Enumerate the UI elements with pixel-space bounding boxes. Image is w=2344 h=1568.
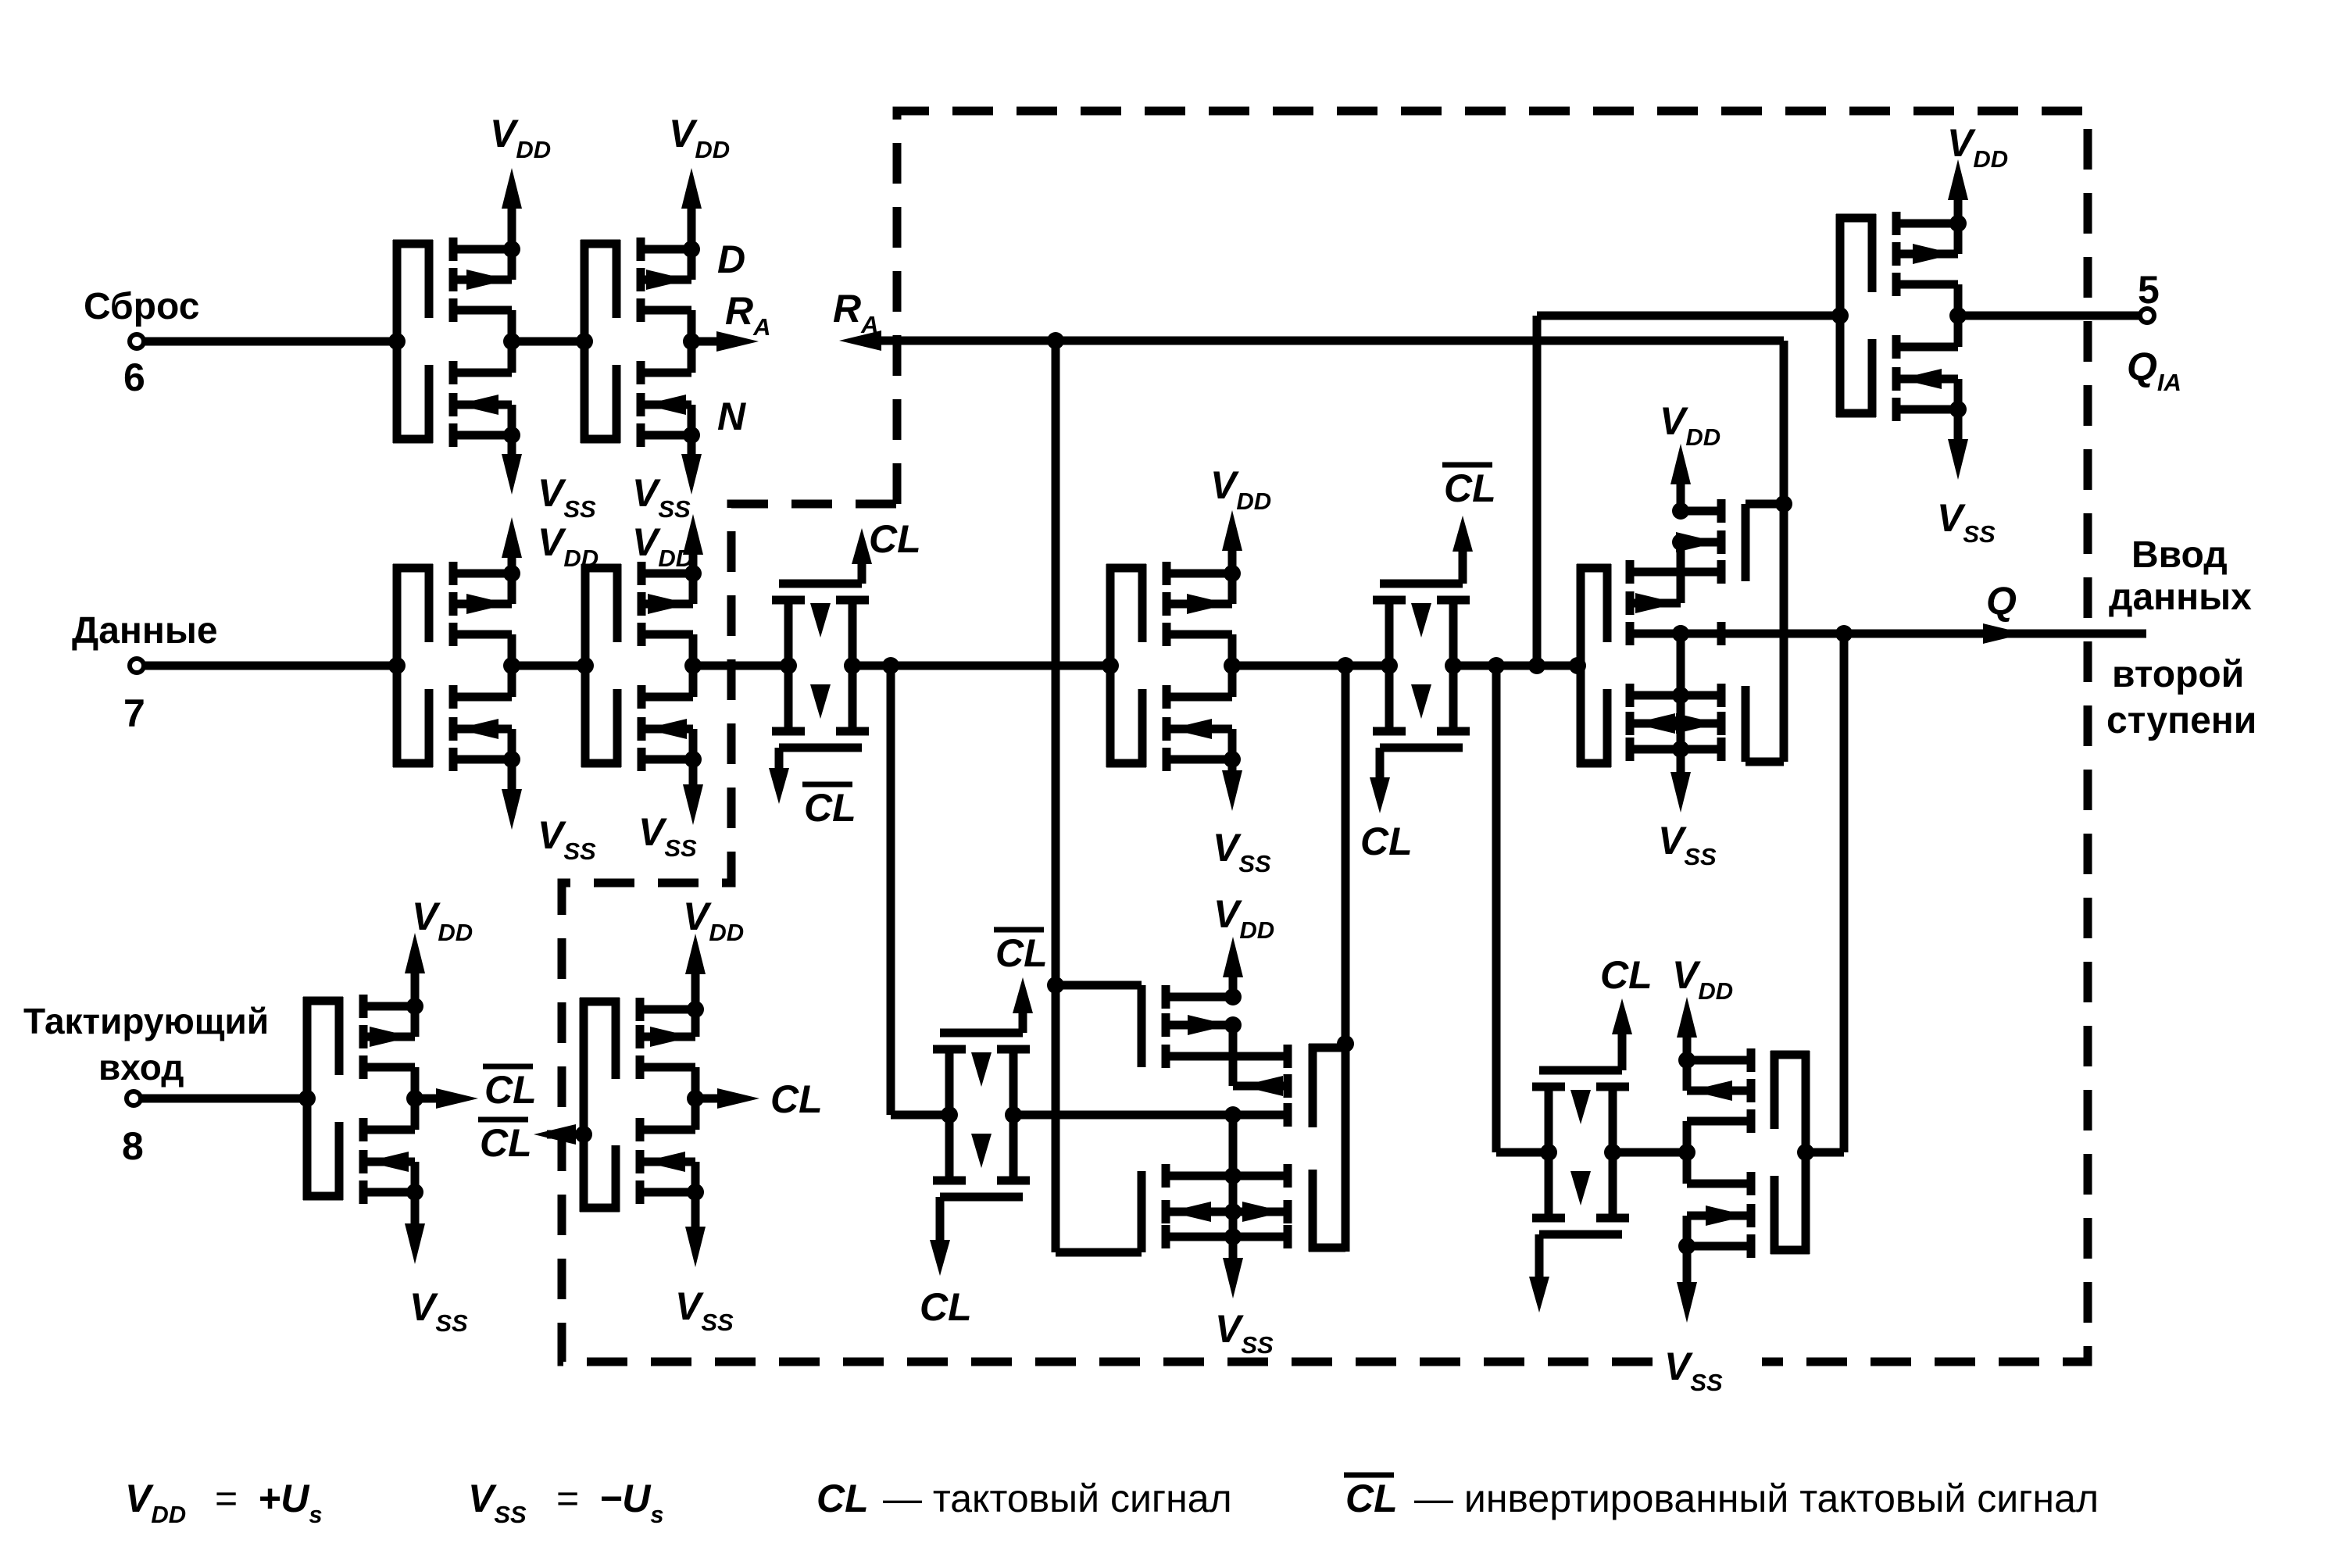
clock label CL at TG1 <box>869 517 921 561</box>
V_DD supply arrow of A1 <box>490 112 551 249</box>
clock label CL-bar at TG3 <box>994 930 1048 975</box>
wire slave node down to TG4 <box>1496 666 1549 1152</box>
svg-text:второй: второй <box>2112 654 2244 695</box>
clock label CL at TG4 <box>1600 953 1653 997</box>
svg-text:Ввод: Ввод <box>2131 534 2228 576</box>
clock label CL-bar at TG2 <box>1442 465 1496 510</box>
net label Q_IA <box>2127 345 2181 396</box>
wire E2 output arrow CL <box>695 1088 759 1109</box>
svg-text:CL: CL <box>995 931 1048 975</box>
V_DD supply arrow of A2 <box>669 112 730 249</box>
wire H1 output to pin 5 <box>1958 312 2140 320</box>
V_DD supply arrow of B1 <box>502 517 599 573</box>
pin 7 terminal <box>123 659 145 735</box>
V_SS supply arrow of E1 <box>405 1192 468 1337</box>
node label N <box>717 395 746 438</box>
clock label CL-bar at TG1 <box>802 784 856 830</box>
V_SS supply arrow of E2 <box>675 1192 734 1336</box>
svg-text:Данные: Данные <box>72 610 218 652</box>
CMOS inverter E2 (clock buffer) <box>580 998 704 1212</box>
CMOS inverter C1 (gate electrode + PMOS/NMOS pair) <box>1102 562 1241 771</box>
E2 input stub with arrow <box>534 1124 592 1145</box>
V_DD supply arrow of G1 <box>1672 953 1733 1060</box>
clock gate line (bottom) of TG2 <box>1370 748 1463 813</box>
net label CL-bar into E2 <box>478 1120 532 1165</box>
wire A1 output to A2 input <box>512 338 584 346</box>
svg-text:CL: CL <box>816 1477 869 1520</box>
wire row2 node down to TG3 <box>891 666 949 1115</box>
V_DD supply arrow of H1 <box>1947 121 2008 223</box>
V_DD supply arrow of D1 <box>1660 399 1720 511</box>
svg-text:CL: CL <box>1345 1477 1398 1520</box>
V_SS supply arrow of F1 <box>1215 1237 1274 1359</box>
transmission gate TG2 <box>1373 600 1470 731</box>
svg-text:CL: CL <box>869 517 921 561</box>
transmission gate TG3 <box>933 1049 1030 1180</box>
svg-text:D: D <box>717 238 745 281</box>
svg-text:CL: CL <box>920 1285 972 1329</box>
V_DD supply arrow of E2 <box>683 895 744 1009</box>
CMOS inverter E1 (gate electrode + PMOS/NMOS pair) <box>298 995 423 1204</box>
wire B2 output to TG1 <box>693 662 788 670</box>
V_SS supply arrow of B2 <box>638 759 703 862</box>
svg-text:Тактирующий: Тактирующий <box>23 1001 269 1041</box>
V_SS supply arrow of B1 <box>502 759 596 865</box>
wire TG1 to C1 with junction to TG3 <box>852 657 1110 674</box>
clock gate line (top) of TG4 <box>1539 998 1632 1070</box>
svg-text:вход: вход <box>98 1047 184 1088</box>
legend V_SS = -U_s <box>468 1477 664 1528</box>
svg-text:=: = <box>556 1477 579 1520</box>
wire TG4 to G1 output node <box>1613 1148 1687 1157</box>
svg-text:CL: CL <box>1600 953 1653 997</box>
V_SS supply arrow of D1 <box>1658 749 1717 870</box>
net label R_A (return into second stage) <box>833 287 879 338</box>
svg-text:5: 5 <box>2138 268 2160 312</box>
clock gate line (top) of TG2 <box>1380 516 1473 584</box>
gate electrode of D1 (slave node input) <box>1577 564 1611 767</box>
svg-text:7: 7 <box>123 691 145 735</box>
CMOS inverter A1 (gate electrode + PMOS/NMOS pair) <box>388 238 520 447</box>
legend CL-bar - inverted clock signal <box>1344 1475 2099 1520</box>
node label Тактирующий вход <box>23 1001 269 1088</box>
svg-text:данных: данных <box>2109 577 2252 618</box>
node label Данные <box>72 610 218 652</box>
svg-text:6: 6 <box>123 355 145 399</box>
svg-text:=: = <box>215 1477 238 1520</box>
wire B1 output to B2 input <box>512 662 585 670</box>
clock label CL at TG2 <box>1360 820 1413 863</box>
clock gate line (bottom) of TG1 <box>769 748 862 804</box>
wire pin8 to E1 <box>141 1095 307 1103</box>
wire Q output of second stage <box>1630 623 2146 644</box>
wire pin6 to A1 <box>144 338 397 346</box>
net label R_A (first stage output) <box>725 289 771 341</box>
transmission gate TG1 <box>772 600 869 731</box>
V_SS supply arrow of A1 <box>502 435 596 523</box>
wire E1 output arrow CL-bar <box>415 1088 478 1109</box>
wire Q down to G1 gate <box>1810 634 1844 1152</box>
svg-text:ступени: ступени <box>2106 700 2256 741</box>
gate electrode of F1 (driven from master node) <box>1309 1035 1354 1252</box>
net label CL (E2 output) <box>770 1077 823 1121</box>
svg-text:CL: CL <box>770 1077 823 1121</box>
svg-text:CL: CL <box>1444 466 1496 510</box>
dashed boundary of second-stage block <box>562 111 2088 1362</box>
svg-text:CL: CL <box>1360 820 1413 863</box>
V_DD supply arrow of C1 <box>1210 463 1271 573</box>
svg-text:Q: Q <box>1986 579 2017 623</box>
clocked inverter F1 transistors (master latch feedback) <box>1166 985 1288 1248</box>
wire slave node up to H1 input <box>1537 316 1842 666</box>
output annotation второй ступени <box>2106 654 2256 741</box>
clock gate line (top) of TG1 <box>779 528 872 584</box>
V_DD supply arrow of B2 <box>632 514 703 573</box>
CMOS inverter B1 (gate electrode + PMOS/NMOS pair) <box>388 562 520 771</box>
CMOS inverter G1 (slave feedback, mirrored) <box>1678 1048 1814 1258</box>
pin 6 terminal <box>123 334 145 399</box>
clock gate line (top) of TG3 <box>940 977 1033 1033</box>
output annotation Ввод данных <box>2109 534 2252 618</box>
wire TG3 to F1 output node <box>1013 1103 1288 1127</box>
node label Сброс <box>84 286 199 327</box>
V_SS supply arrow of H1 <box>1937 409 1996 548</box>
V_SS supply arrow of A2 <box>632 435 702 523</box>
clocked inverter D1 transistors (slave stage) <box>1630 499 1721 761</box>
reset gate electrodes of D1 (hooks on R_A line) <box>1745 495 1792 762</box>
net label CL-bar (E1 output) <box>483 1066 537 1112</box>
svg-text:CL: CL <box>484 1068 537 1112</box>
wire A2 output to R_A <box>691 331 759 352</box>
clock gate line (bottom) of TG3 <box>930 1197 1023 1276</box>
reset gate electrodes of F1 (hooks on R_A line) <box>1047 977 1142 1252</box>
wire R_A return (arrow into first stage) <box>839 330 1784 504</box>
wire C1 output to TG2 <box>1232 657 1389 674</box>
pin 5 terminal <box>2138 268 2160 323</box>
net label Q <box>1986 579 2017 623</box>
CMOS inverter H1 (gate electrode + PMOS/NMOS pair) <box>1831 212 1967 421</box>
node label D <box>717 238 745 281</box>
svg-text:— инвертированный тактовый сиг: — инвертированный тактовый сигнал <box>1414 1477 2099 1520</box>
svg-text:Сброс: Сброс <box>84 286 199 327</box>
V_DD supply arrow of E1 <box>405 895 473 1006</box>
wire R_A down to F1 reset gates <box>1047 332 1064 985</box>
svg-text:N: N <box>717 395 746 438</box>
legend V_DD = +U_s <box>125 1477 323 1528</box>
svg-text:CL: CL <box>804 786 856 830</box>
V_SS supply arrow of G1 <box>1664 1246 1723 1396</box>
V_DD supply arrow of F1 <box>1213 892 1274 997</box>
transmission gate TG4 <box>1532 1087 1629 1218</box>
CMOS inverter B2 (gate electrode + PMOS/NMOS pair) <box>577 562 702 771</box>
V_SS supply arrow of C1 <box>1213 759 1271 877</box>
wire master node down to F1 gate <box>1342 666 1350 1044</box>
CMOS inverter A2 (gate electrode + PMOS/NMOS pair) <box>576 238 700 447</box>
clock gate line (bottom) of TG4 <box>1529 1234 1622 1313</box>
pin 8 terminal <box>122 1091 144 1168</box>
legend CL - clock signal <box>816 1477 1232 1520</box>
clock label CL at TG3 <box>920 1285 972 1329</box>
svg-text:— тактовый сигнал: — тактовый сигнал <box>883 1477 1232 1520</box>
wire pin7 to B1 <box>144 662 397 670</box>
svg-text:CL: CL <box>480 1121 532 1165</box>
wire TG2 to D1 with junctions <box>1453 657 1586 674</box>
svg-text:8: 8 <box>122 1124 144 1168</box>
